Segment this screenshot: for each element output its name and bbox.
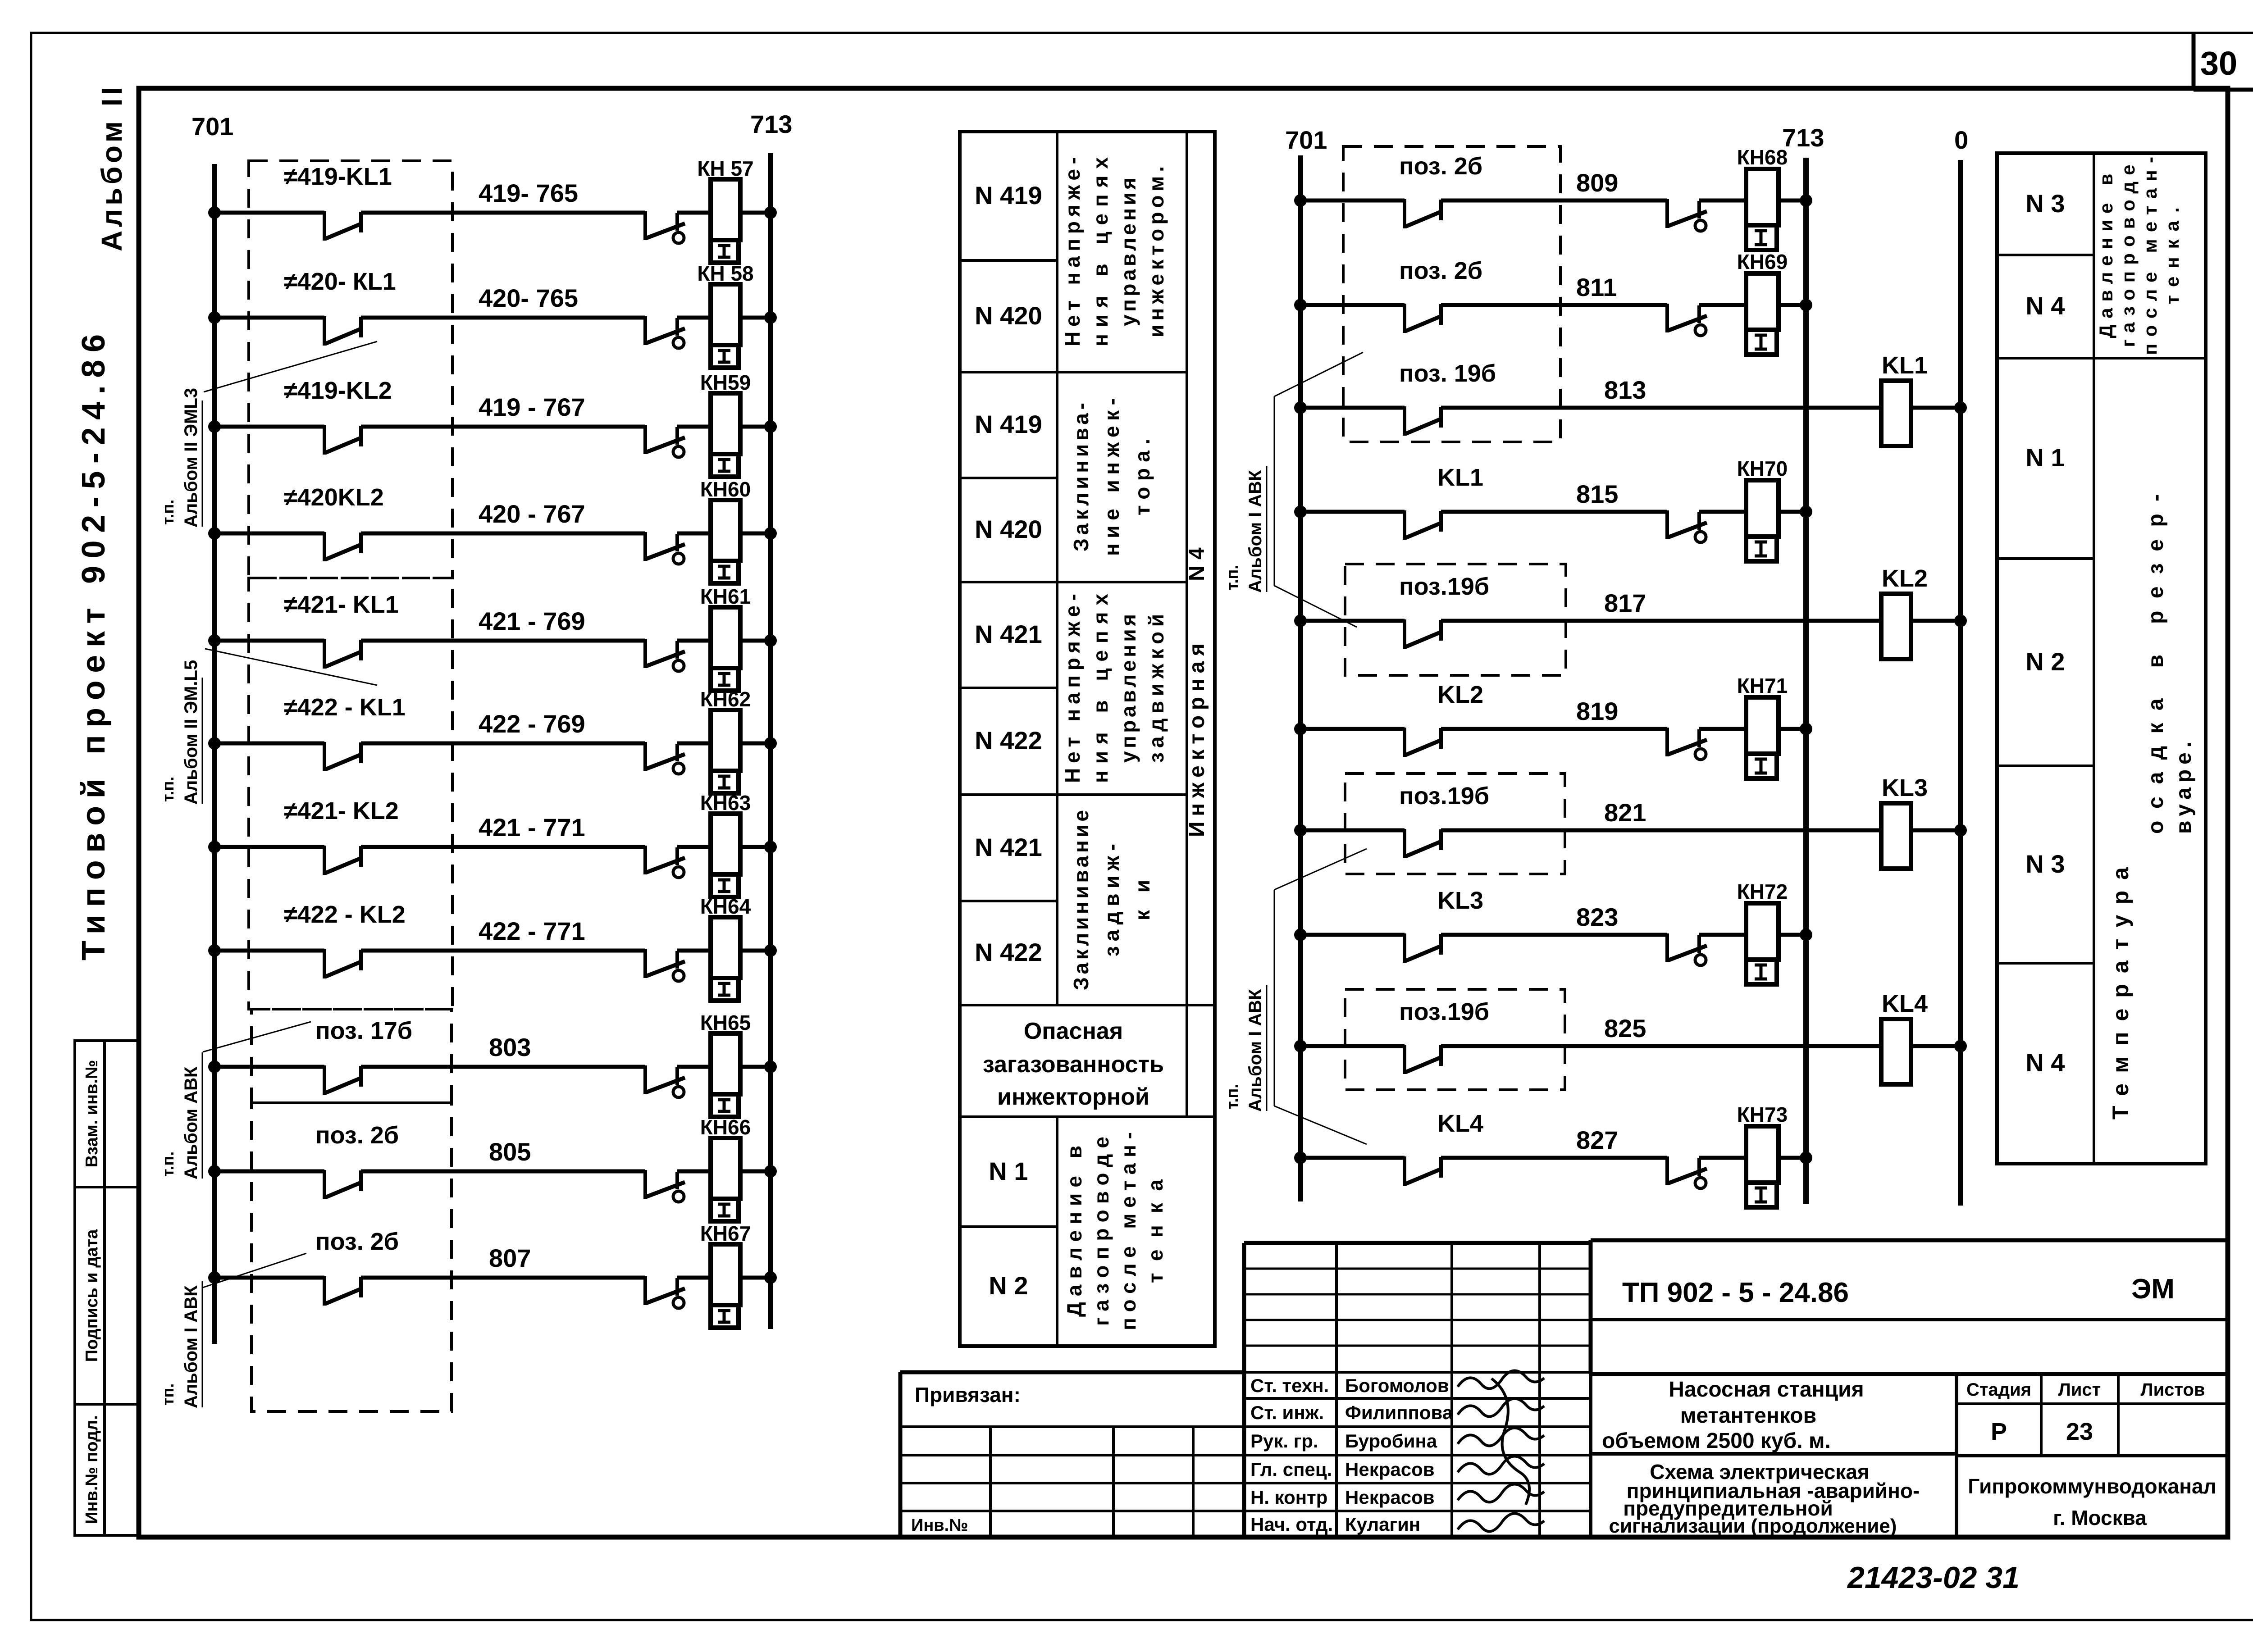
svg-text:KL4: KL4 — [1437, 1110, 1483, 1137]
bus 713 left — [750, 110, 792, 1329]
wire row L11 (807) — [208, 1271, 324, 1284]
svg-text:Инжекторная: Инжекторная — [1185, 643, 1209, 837]
wire row L7 (421 - 771) — [208, 841, 324, 853]
svg-text:т.п.: т.п. — [159, 777, 177, 802]
wire lamp КН63 to bus 713 — [740, 841, 777, 853]
svg-text:701: 701 — [1285, 126, 1327, 154]
svg-text:N 4: N 4 — [2025, 291, 2065, 320]
description: Нет напряжения в цепях управления задвижкой — [1061, 594, 1168, 783]
svg-text:сигнализации (продолжение): сигнализации (продолжение) — [1609, 1515, 1897, 1537]
inventory number 21423-02 31 — [1847, 1561, 2020, 1595]
svg-text:811: 811 — [1576, 273, 1617, 301]
svg-text:КН67: КН67 — [700, 1222, 751, 1245]
wire row L3 (419 - 767) — [208, 420, 324, 433]
svg-text:803: 803 — [489, 1033, 531, 1061]
svg-text:Инв.№ подл.: Инв.№ подл. — [82, 1415, 101, 1524]
svg-text:23: 23 — [2066, 1418, 2093, 1445]
wire 813 — [1441, 376, 1881, 408]
push-button of КН66 — [645, 1170, 685, 1202]
svg-text:КН65: КН65 — [700, 1011, 751, 1034]
svg-text:Типовой проект 902-5-24.86: Типовой проект 902-5-24.86 — [76, 334, 112, 960]
relay coil KL4 — [1881, 990, 1928, 1084]
wire 823 — [1441, 903, 1667, 935]
svg-text:Р: Р — [1991, 1418, 2007, 1445]
wire lamp КН 57 to bus 713 — [740, 206, 777, 219]
node label N 422 — [975, 726, 1042, 755]
sidebar stamp divider — [103, 1041, 106, 1535]
svg-text:713: 713 — [1782, 123, 1824, 152]
contact KL1 — [1405, 464, 1483, 540]
contact поз.19б — [1399, 998, 1489, 1074]
lamp КН67 — [677, 1222, 751, 1328]
sidebar stamp box Взам. инв.№ — [75, 1041, 139, 1187]
node label N 3 right — [2025, 189, 2065, 218]
svg-text:Заклинива-: Заклинива- — [1069, 403, 1093, 551]
wire row R5 (817) — [1294, 614, 1405, 627]
svg-text:805: 805 — [489, 1138, 531, 1166]
wire 421 - 771 — [361, 813, 645, 847]
node label N 421 — [975, 833, 1042, 861]
contact поз. 2б — [315, 1122, 399, 1199]
lamp КН71 — [1699, 674, 1788, 778]
svg-text:ЭМ: ЭМ — [2131, 1274, 2175, 1305]
svg-text:KL2: KL2 — [1882, 565, 1928, 592]
wire lamp КН62 to bus 713 — [740, 737, 777, 750]
svg-text:N 419: N 419 — [975, 410, 1042, 438]
wire lamp КН66 to bus 713 — [740, 1165, 777, 1178]
svg-text:813: 813 — [1604, 376, 1646, 404]
svg-text:815: 815 — [1576, 480, 1618, 508]
svg-text:421 - 771: 421 - 771 — [479, 813, 585, 842]
push-button of КН69 — [1667, 304, 1707, 336]
wire 827 — [1441, 1126, 1667, 1158]
push-button of КН60 — [645, 532, 685, 564]
contact ≠419-KL1 — [284, 163, 392, 241]
svg-text:0: 0 — [1954, 126, 1968, 154]
middle annunciator table — [960, 132, 1215, 1346]
description: Нет напряжения в цепях управления инжектором — [1061, 157, 1168, 346]
svg-text:поз. 2б: поз. 2б — [1399, 153, 1482, 180]
svg-text:поз.19б: поз.19б — [1399, 998, 1489, 1025]
svg-text:N 1: N 1 — [989, 1157, 1028, 1185]
svg-text:Н. контр: Н. контр — [1250, 1487, 1327, 1508]
wire lamp КН70 to bus 713 — [1779, 505, 1812, 518]
wire 807 — [361, 1244, 645, 1278]
svg-text:поз. 2б: поз. 2б — [315, 1122, 399, 1149]
svg-text:≠421- KL2: ≠421- KL2 — [284, 797, 399, 824]
node label N 420 — [975, 515, 1042, 543]
lamp КН59 — [677, 371, 751, 477]
wire 811 — [1441, 273, 1667, 305]
contact ≠419-KL2 — [284, 377, 392, 455]
contact ≠420KL2 — [284, 484, 384, 561]
push-button of КН68 — [1667, 199, 1707, 231]
svg-text:419- 765: 419- 765 — [479, 179, 578, 207]
push-button of КН72 — [1667, 933, 1707, 965]
wire lamp КН72 to bus 713 — [1779, 928, 1812, 941]
bus 701 left — [192, 112, 233, 1344]
description: Опасная загазованность инжекторной — [983, 1018, 1164, 1110]
wire row R9 (825) — [1294, 1040, 1405, 1052]
wire 815 — [1441, 480, 1667, 512]
push-button of КН 58 — [645, 316, 685, 348]
svg-text:N 1: N 1 — [2025, 443, 2065, 472]
lamp КН73 — [1699, 1103, 1788, 1207]
push-button of КН63 — [645, 846, 685, 878]
svg-text:Ст. техн.: Ст. техн. — [1250, 1375, 1329, 1396]
lamp КН60 — [677, 478, 751, 583]
wire row L4 (420 - 767) — [208, 527, 324, 540]
push-button of КН65 — [645, 1065, 685, 1097]
svg-text:≠421- KL1: ≠421- KL1 — [284, 591, 399, 618]
svg-text:30: 30 — [2200, 45, 2237, 82]
push-button of КН64 — [645, 949, 685, 981]
svg-text:KL1: KL1 — [1437, 464, 1483, 491]
dashed group box rows L1-L4 — [249, 161, 452, 578]
svg-text:КН60: КН60 — [700, 478, 751, 501]
svg-text:KL4: KL4 — [1882, 990, 1928, 1017]
svg-text:Ст. инж.: Ст. инж. — [1250, 1402, 1324, 1423]
wire lamp КН61 to bus 713 — [740, 634, 777, 647]
wire 817 — [1441, 589, 1881, 621]
svg-text:N 420: N 420 — [975, 301, 1042, 330]
title block: document number cell ТП 902-5-24.86 / ЭМ — [1591, 1240, 2228, 1374]
svg-text:г. Москва: г. Москва — [2053, 1506, 2147, 1529]
svg-text:N 421: N 421 — [975, 620, 1042, 648]
svg-text:Некрасов: Некрасов — [1345, 1487, 1435, 1508]
sidebar caption Типовой проект 902-5-24.86 — [76, 334, 112, 960]
wire row L10 (805) — [208, 1165, 324, 1178]
svg-text:Нач. отд.: Нач. отд. — [1250, 1514, 1333, 1535]
svg-text:≠422 - KL2: ≠422 - KL2 — [284, 901, 406, 928]
svg-text:N 420: N 420 — [975, 515, 1042, 543]
description: Температура осадка в резервуаре (right) — [2108, 494, 2196, 1120]
svg-text:поз. 17б: поз. 17б — [315, 1017, 412, 1044]
sheet number box 30 — [2194, 33, 2253, 90]
contact поз.19б — [1399, 573, 1489, 649]
lamp КН63 — [677, 791, 751, 897]
svg-text:≠419-KL2: ≠419-KL2 — [284, 377, 392, 404]
wire 420 - 767 — [361, 500, 645, 533]
contact ≠420- КL1 — [284, 268, 396, 346]
svg-text:задвижкой: задвижкой — [1145, 614, 1168, 763]
relay coil KL3 — [1881, 774, 1928, 869]
node label N 2 — [989, 1271, 1028, 1300]
node label N 422 — [975, 938, 1042, 966]
wire lamp КН69 to bus 713 — [1779, 299, 1812, 311]
svg-text:т.п.: т.п. — [159, 1151, 177, 1177]
svg-text:Альбом I АВК: Альбом I АВК — [1245, 989, 1265, 1112]
svg-text:N 422: N 422 — [975, 938, 1042, 966]
dashed group box rows L10-L11 — [251, 1103, 452, 1411]
wire row L2 (420- 765) — [208, 311, 324, 324]
lamp КН69 — [1699, 250, 1788, 355]
wire row R2 (811) — [1294, 299, 1405, 311]
svg-text:КН62: КН62 — [700, 687, 751, 711]
svg-text:загазованность: загазованность — [983, 1051, 1164, 1078]
lamp КН64 — [677, 895, 751, 1001]
svg-text:≠422 - KL1: ≠422 - KL1 — [284, 694, 406, 721]
svg-text:Альбом II ЭМL3: Альбом II ЭМL3 — [181, 388, 201, 528]
wire row L6 (422 - 769) — [208, 737, 324, 750]
svg-text:ния в цепях: ния в цепях — [1089, 594, 1112, 783]
svg-text:Альбом I АВК: Альбом I АВК — [181, 1285, 201, 1408]
node label N 419 — [975, 410, 1042, 438]
wire row R4 (815) — [1294, 505, 1405, 518]
node label N 419 — [975, 181, 1042, 209]
svg-text:задвиж-: задвиж- — [1100, 844, 1123, 956]
wire 422 - 769 — [361, 710, 645, 743]
svg-text:поз. 2б: поз. 2б — [315, 1228, 399, 1255]
svg-text:Инв.№: Инв.№ — [911, 1516, 968, 1535]
svg-text:N 4: N 4 — [2025, 1048, 2065, 1077]
wire lamp КН67 to bus 713 — [740, 1271, 777, 1284]
wire row R10 (827) — [1294, 1151, 1405, 1164]
node label N 1 — [989, 1157, 1028, 1185]
title block: drawing name cell — [1609, 1460, 1920, 1537]
svg-text:≠420- КL1: ≠420- КL1 — [284, 268, 396, 295]
wire 805 — [361, 1138, 645, 1171]
sidebar caption Альбом II — [96, 87, 128, 251]
svg-text:KL1: KL1 — [1882, 352, 1928, 379]
svg-text:поз.19б: поз.19б — [1399, 573, 1489, 600]
svg-text:21423-02 31: 21423-02 31 — [1847, 1561, 2020, 1595]
node label N 420 — [975, 301, 1042, 330]
svg-text:Рук. гр.: Рук. гр. — [1250, 1430, 1318, 1452]
svg-text:825: 825 — [1604, 1014, 1646, 1042]
wire lamp КН64 to bus 713 — [740, 944, 777, 957]
svg-text:N 2: N 2 — [989, 1271, 1028, 1300]
wire relay KL2 to bus 0 — [1911, 614, 1967, 627]
svg-text:поз. 2б: поз. 2б — [1399, 257, 1482, 284]
svg-text:419 - 767: 419 - 767 — [479, 393, 585, 421]
bus 701 right — [1285, 126, 1327, 1201]
svg-text:КН69: КН69 — [1737, 250, 1788, 273]
dashed group box rows L5-L8 — [249, 578, 452, 1009]
svg-text:КН64: КН64 — [700, 895, 751, 918]
svg-text:Альбом АВК: Альбом АВК — [181, 1066, 201, 1179]
wire 419 - 767 — [361, 393, 645, 427]
svg-text:Альбом I АВК: Альбом I АВК — [1245, 470, 1265, 593]
relay coil KL1 — [1881, 352, 1928, 446]
note т.п. Альбом II ЭМL3 — [159, 341, 377, 528]
note т.п. Альбом I АВК (upper) — [1223, 352, 1363, 627]
svg-text:Кулагин: Кулагин — [1345, 1514, 1420, 1535]
wire row L5 (421 - 769) — [208, 634, 324, 647]
wire lamp КН73 to bus 713 — [1779, 1151, 1812, 1164]
svg-text:Альбом II: Альбом II — [96, 87, 128, 251]
dashed group box row R9 — [1345, 989, 1565, 1090]
wire row L8 (422 - 771) — [208, 944, 324, 957]
svg-text:420 - 767: 420 - 767 — [479, 500, 585, 528]
svg-text:Филиппова: Филиппова — [1345, 1402, 1453, 1423]
node label N 4 right — [2025, 291, 2065, 320]
dashed group box row R7 — [1345, 774, 1565, 874]
lamp КН72 — [1699, 880, 1788, 984]
svg-text:Насосная станция: Насосная станция — [1669, 1378, 1864, 1402]
lamp КН 57 — [677, 157, 754, 263]
wire relay KL1 to bus 0 — [1911, 401, 1967, 414]
description: Заклинивание задвижки — [1069, 810, 1154, 990]
svg-text:объемом 2500 куб. м.: объемом 2500 куб. м. — [1602, 1429, 1831, 1453]
node label N 421 — [975, 620, 1042, 648]
svg-text:420- 765: 420- 765 — [479, 284, 578, 312]
contact поз. 2б — [1399, 257, 1482, 333]
svg-text:KL3: KL3 — [1882, 774, 1928, 801]
title block: stage/sheet header — [1957, 1240, 2228, 1537]
svg-text:ТП 902 - 5 - 24.86: ТП 902 - 5 - 24.86 — [1622, 1277, 1849, 1308]
wire row R6 (819) — [1294, 723, 1405, 735]
svg-text:КН68: КН68 — [1737, 146, 1788, 169]
contact KL2 — [1405, 681, 1483, 757]
svg-text:Буробина: Буробина — [1345, 1430, 1437, 1452]
push-button of КН67 — [645, 1276, 685, 1308]
svg-text:поз.19б: поз.19б — [1399, 783, 1489, 810]
wire row R7 (821) — [1294, 824, 1405, 837]
svg-text:422 - 771: 422 - 771 — [479, 917, 585, 945]
wire lamp КН65 to bus 713 — [740, 1060, 777, 1073]
svg-text:Взам. инв.№: Взам. инв.№ — [82, 1060, 101, 1168]
svg-text:Гл. спец.: Гл. спец. — [1250, 1459, 1332, 1480]
svg-text:КН 57: КН 57 — [697, 157, 753, 180]
node label N 4 right — [2025, 1048, 2065, 1077]
push-button of КН73 — [1667, 1156, 1707, 1188]
node label N 3 right — [2025, 850, 2065, 878]
svg-text:≠420KL2: ≠420KL2 — [284, 484, 384, 511]
dashed group box row R5 — [1345, 564, 1566, 675]
svg-text:поз. 19б: поз. 19б — [1399, 360, 1496, 387]
svg-text:Опасная: Опасная — [1024, 1018, 1123, 1044]
wire row R1 (809) — [1294, 194, 1405, 207]
wire 821 — [1441, 798, 1881, 830]
svg-text:Привязан:: Привязан: — [915, 1383, 1021, 1406]
svg-text:осадка в резер-: осадка в резер- — [2144, 494, 2168, 834]
wire 421 - 769 — [361, 607, 645, 641]
wire relay KL3 to bus 0 — [1911, 824, 1967, 837]
note т.п. Альбом АВК — [159, 1022, 311, 1179]
svg-text:Стадия: Стадия — [1966, 1380, 2031, 1400]
svg-text:≠419-KL1: ≠419-KL1 — [284, 163, 392, 190]
push-button of КН59 — [645, 425, 685, 457]
wire lamp КН71 to bus 713 — [1779, 723, 1812, 735]
wire lamp КН 58 to bus 713 — [740, 311, 777, 324]
svg-text:КН66: КН66 — [700, 1115, 751, 1139]
svg-text:т.п.: т.п. — [1223, 565, 1241, 590]
title block: Привязан section — [900, 1372, 1244, 1537]
svg-text:КН63: КН63 — [700, 791, 751, 815]
lamp КН66 — [677, 1115, 751, 1221]
lamp КН61 — [677, 585, 751, 691]
contact KL4 — [1405, 1110, 1483, 1186]
lamp КН62 — [677, 687, 751, 793]
wire 419- 765 — [361, 179, 645, 213]
svg-text:713: 713 — [750, 110, 792, 138]
wire lamp КН59 to bus 713 — [740, 420, 777, 433]
bus 0 — [1954, 126, 1968, 1206]
svg-text:КН61: КН61 — [700, 585, 751, 608]
wire 803 — [361, 1033, 645, 1067]
description: Давление в газопроводе после метантенка — [1063, 1132, 1167, 1330]
relay coil KL2 — [1881, 565, 1928, 659]
svg-text:ния в цепях: ния в цепях — [1089, 157, 1112, 346]
svg-text:827: 827 — [1576, 1126, 1618, 1154]
lamp КН65 — [677, 1011, 751, 1117]
title block: organisation cell — [1968, 1475, 2217, 1529]
svg-text:N 422: N 422 — [975, 726, 1042, 755]
node label N 1 right — [2025, 443, 2065, 472]
description: Инжекторная N 4 — [1185, 547, 1209, 837]
contact поз.19б — [1399, 783, 1489, 858]
svg-text:КН70: КН70 — [1737, 457, 1788, 480]
wire row R8 (823) — [1294, 928, 1405, 941]
svg-text:819: 819 — [1576, 697, 1618, 725]
contact ≠421- KL1 — [284, 591, 399, 669]
note т.п. Альбом I АВК (lower) — [1223, 849, 1367, 1144]
wire 809 — [1441, 168, 1667, 200]
wire 422 - 771 — [361, 917, 645, 951]
wire relay KL4 to bus 0 — [1911, 1040, 1967, 1052]
svg-text:422 - 769: 422 - 769 — [479, 710, 585, 738]
svg-text:метантенков: метантенков — [1680, 1404, 1816, 1428]
svg-text:Некрасов: Некрасов — [1345, 1459, 1435, 1480]
svg-text:821: 821 — [1604, 798, 1646, 827]
note т.п. Альбом II ЭМ.L5 — [159, 649, 377, 805]
svg-text:KL3: KL3 — [1437, 887, 1483, 914]
svg-text:Богомолов: Богомолов — [1345, 1375, 1449, 1396]
wire row R3 (813) — [1294, 401, 1405, 414]
lamp КН 58 — [677, 262, 754, 368]
wire lamp КН60 to bus 713 — [740, 527, 777, 540]
contact ≠422 - KL2 — [284, 901, 406, 978]
svg-text:N 4: N 4 — [1185, 547, 1209, 581]
lamp КН68 — [1699, 146, 1788, 250]
svg-text:KL2: KL2 — [1437, 681, 1483, 708]
wire 420- 765 — [361, 284, 645, 318]
svg-text:КН72: КН72 — [1737, 880, 1788, 903]
svg-text:Подпись и дата: Подпись и дата — [82, 1229, 101, 1362]
svg-text:КН71: КН71 — [1737, 674, 1788, 697]
wire row L9 (803) — [208, 1060, 324, 1073]
svg-text:Альбом II ЭМ.L5: Альбом II ЭМ.L5 — [181, 660, 201, 805]
contact поз. 2б — [1399, 153, 1482, 228]
description: Заклинивание инжектора — [1069, 398, 1154, 556]
contact ≠421- KL2 — [284, 797, 399, 875]
svg-text:тп.: тп. — [159, 1383, 177, 1406]
svg-text:809: 809 — [1576, 168, 1618, 197]
contact ≠422 - KL1 — [284, 694, 406, 771]
contact KL3 — [1405, 887, 1483, 963]
wire 825 — [1441, 1014, 1881, 1046]
push-button of КН62 — [645, 742, 685, 774]
push-button of КН61 — [645, 639, 685, 671]
title block: project name cell — [900, 1374, 2228, 1537]
svg-text:Листов: Листов — [2141, 1380, 2205, 1400]
bus 713 right — [1782, 123, 1824, 1204]
svg-text:т.п.: т.п. — [1223, 1084, 1241, 1109]
sidebar stamp box Подпись и дата — [75, 1187, 139, 1404]
svg-text:Гипрокоммунводоканал: Гипрокоммунводоканал — [1968, 1475, 2217, 1498]
push-button of КН71 — [1667, 728, 1707, 760]
svg-text:Лист: Лист — [2058, 1380, 2101, 1400]
wire lamp КН68 to bus 713 — [1779, 194, 1812, 207]
note тп. Альбом I АВК — [159, 1253, 306, 1408]
svg-text:КН 58: КН 58 — [697, 262, 753, 285]
svg-text:КН59: КН59 — [700, 371, 751, 394]
svg-text:421 - 769: 421 - 769 — [479, 607, 585, 635]
lamp КН70 — [1699, 457, 1788, 561]
wire 819 — [1441, 697, 1667, 729]
contact поз. 19б — [1399, 360, 1496, 436]
